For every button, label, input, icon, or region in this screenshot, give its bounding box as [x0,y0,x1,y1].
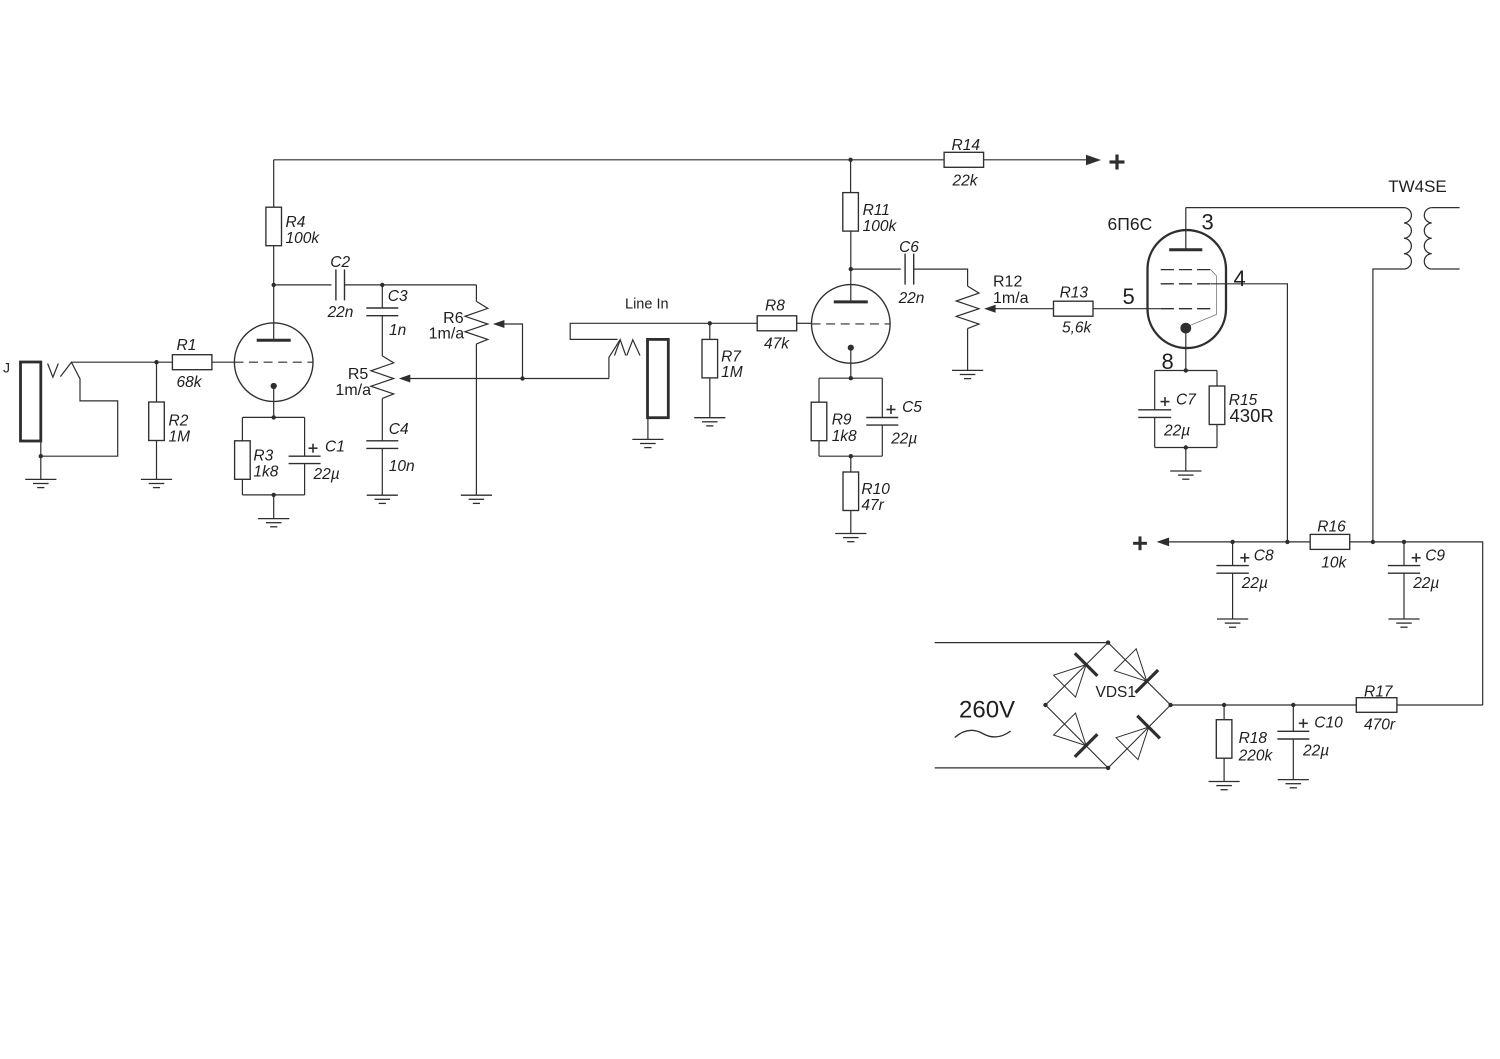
label pin 3 [1202,209,1214,234]
node C8 junction [1230,540,1234,544]
wire R12 to ground [967,329,969,371]
svg-text:430R: 430R [1230,405,1274,426]
wire V1 anode to C2 [274,284,332,286]
wire C3 to R5 [381,316,383,356]
resistor R17 [1356,684,1397,734]
svg-text:R8: R8 [765,298,785,315]
wire C7 bottom lead [1154,417,1156,447]
diode VDS1 lower-right [1116,716,1160,760]
wire C5 bottom lead [881,425,883,456]
resistor R14 [944,137,984,190]
wire C2 to tone network [345,284,477,286]
svg-text:R1: R1 [177,337,197,354]
arrow R5 wiper [399,375,523,383]
ground C8 [1217,619,1248,627]
wire R10 bottom lead [850,511,852,534]
wire V3 cathode network bottom [1155,447,1217,449]
resistor R16 [1310,519,1350,572]
transformer TW4SE primary winding [1404,208,1411,269]
capacitor C8 [1216,547,1274,592]
wire C8 bottom lead [1232,573,1234,619]
wire C3 top lead [381,285,383,308]
node R10 junction [849,454,853,458]
ground R3/C1 [258,519,289,527]
line-in jack body [648,339,669,417]
label TW4SE [1388,177,1447,196]
node R5/R6 wiper junction [520,376,524,380]
diode VDS1 lower-left [1053,713,1097,757]
potentiometer R12 [956,274,1028,329]
svg-text:R3: R3 [253,448,273,465]
capacitor C10 [1277,714,1343,759]
ground line-in jack [632,439,663,447]
wire C1 bottom lead [304,464,306,495]
wire V3 anode lead [1185,208,1187,250]
triode V1 [234,323,313,402]
wire C7 top lead [1154,371,1156,410]
svg-text:22µ: 22µ [313,466,340,483]
AC source sine symbol [955,730,1011,737]
pentode V3 grid g3 [1161,269,1211,271]
node V2 cathode junction [849,376,853,380]
wire secondary top lead [1432,207,1460,209]
svg-text:1m/a: 1m/a [335,382,371,399]
resistor R18 [1216,720,1273,765]
wire C5 top lead [881,378,883,417]
wire R10 top lead [850,456,852,472]
node jack sleeve junction [39,454,43,458]
resistor R1 [172,337,212,391]
svg-text:22µ: 22µ [1302,743,1329,760]
wire R8 to V2 grid [797,322,812,324]
svg-text:R11: R11 [863,202,890,219]
capacitor C2 [327,254,354,321]
resistor R11 [843,193,898,235]
node bridge right [1168,703,1172,707]
svg-text:J: J [3,360,10,376]
wire R15 bottom lead [1216,425,1218,448]
potentiometer R6 [429,301,488,344]
node C10 junction [1291,703,1295,707]
svg-text:22n: 22n [327,304,354,321]
resistor R9 [811,402,857,445]
wire R11 bottom to V2 anode [850,231,852,302]
node C9 junction [1402,540,1406,544]
wire input signal [71,361,172,363]
wire V3 cathode network top [1155,370,1217,372]
node V2 anode / C6 junction [849,267,853,271]
ground R6 [461,495,492,503]
triode V2 [812,285,891,364]
node top-rail / R11 junction [848,158,852,162]
svg-text:C7: C7 [1176,392,1197,409]
svg-text:470r: 470r [1364,717,1396,734]
svg-text:1M: 1M [169,429,191,446]
capacitor C7 [1138,392,1197,440]
wire R7 bottom lead [709,378,711,418]
resistor R2 [149,402,190,446]
wire R9 bottom lead [818,441,820,457]
wire B+ row (right) [1350,542,1483,705]
pentode V3 grid g1 [1161,308,1211,310]
node C3/R6 junction [380,283,384,287]
svg-text:R4: R4 [286,214,306,231]
wire R13 to V3 grid [1093,308,1161,310]
ground C9 [1388,619,1419,627]
label 260V [959,697,1015,724]
arrow R6 wiper [493,320,523,379]
pentode V3 grid g2 [1161,283,1211,285]
transformer TW4SE secondary winding [1424,208,1431,269]
wire V3 cathode lead [1185,333,1187,371]
ground R18 [1209,782,1240,790]
wire R3 top lead [241,417,243,440]
svg-text:1m/a: 1m/a [993,290,1029,307]
wire V2 cathode network top [819,377,882,379]
wire V2 anode to C6 [851,268,901,270]
svg-text:R16: R16 [1317,519,1346,536]
node screen supply junction [1285,540,1289,544]
wire C9 bottom lead [1403,573,1405,619]
line-in jack contact B [627,340,640,356]
wire +B top rail (left segment) [274,159,945,161]
wire R3 bottom lead [241,479,243,495]
capacitor C1 [289,439,345,483]
wire cathode network bottom [242,494,304,496]
svg-text:47k: 47k [764,336,790,353]
svg-text:C4: C4 [389,421,409,438]
node bridge bottom [1106,766,1110,770]
svg-text:100k: 100k [863,218,898,235]
svg-text:VDS1: VDS1 [1096,684,1137,701]
wire R1 to V1 grid [212,361,234,363]
wire C8 top lead [1232,542,1234,566]
svg-text:R18: R18 [1239,730,1268,747]
svg-text:10n: 10n [389,458,415,475]
node R18 junction [1222,703,1226,707]
ground R2 [141,479,172,487]
svg-text:C10: C10 [1314,714,1343,731]
svg-text:C8: C8 [1254,547,1274,564]
capacitor C5 [866,399,922,448]
node cathode network to ground [272,493,276,497]
bridge VDS1 frame [1046,643,1171,768]
svg-text:1n: 1n [389,322,406,339]
svg-text:R17: R17 [1364,684,1394,701]
ground jack J [25,479,56,487]
wire C9 top lead [1403,542,1405,566]
wire to ground [273,495,275,519]
wire top rail down to R4 [273,160,275,207]
svg-text:100k: 100k [286,230,321,247]
svg-text:5,6k: 5,6k [1062,319,1093,336]
node V3 cathode junction [1184,368,1188,372]
wire R7 top lead [709,323,711,339]
wire line-in top [570,323,757,339]
svg-text:1k8: 1k8 [253,463,278,480]
resistor R13 [1054,285,1094,337]
svg-text:220k: 220k [1238,747,1274,764]
arrow B+ feed [1157,538,1170,547]
pentode V3 g3-cathode internal tie [1190,270,1217,326]
pentode V3 envelope [1148,230,1227,348]
resistor R7 [702,339,743,381]
wire C1 top lead [304,417,306,456]
wire rectifier output [1171,704,1357,706]
wire R2 bottom lead [156,441,158,480]
arrow R12 wiper [984,305,1054,313]
node bridge top [1106,640,1110,644]
svg-text:10k: 10k [1321,554,1347,571]
wire V3 anode to transformer [1186,207,1404,209]
label VDS1 [1096,684,1137,701]
diode VDS1 upper-right [1114,648,1158,692]
svg-text:22µ: 22µ [1412,575,1439,592]
svg-text:R14: R14 [952,137,981,154]
wire line-in sleeve to ground [647,418,649,440]
resistor R4 [266,207,320,247]
capacitor C4 [366,421,414,475]
svg-text:R2: R2 [169,413,189,430]
svg-text:C5: C5 [902,399,922,416]
label J [3,360,10,376]
svg-text:TW4SE: TW4SE [1388,177,1447,196]
jack J contact [48,364,59,378]
input jack J body [21,362,41,441]
jack J tip contact and switch arm [41,362,118,456]
node R1/R2 junction [154,360,158,364]
capacitor C9 [1388,547,1446,592]
svg-text:R5: R5 [348,366,369,383]
ground R12 [952,370,983,378]
svg-text:C3: C3 [388,288,408,305]
pentode V3 anode [1169,248,1202,251]
wire R2 top lead [156,362,158,402]
wire secondary bottom lead [1432,268,1460,270]
svg-text:C6: C6 [899,239,919,256]
wire R15 top lead [1216,371,1218,387]
plus sign +B top [1110,155,1125,170]
plus sign B+ feed [1133,536,1147,550]
node V1 cathode junction [272,415,276,419]
wire C10 bottom lead [1292,739,1294,780]
wire R18 top lead [1223,705,1225,720]
wire top rail down to R11 [850,160,852,193]
line-in jack contact A [615,340,626,356]
wire C6 to R12 [914,269,968,286]
svg-text:C1: C1 [325,439,345,456]
label pin 4 [1234,266,1246,291]
wire V2 cathode network bottom [819,455,882,457]
wire jack J sleeve to ground [40,441,42,479]
svg-text:22µ: 22µ [890,431,917,448]
label 6П6С [1108,214,1153,234]
resistor R3 [235,441,279,481]
svg-text:R9: R9 [832,412,852,429]
svg-text:22µ: 22µ [1241,575,1268,592]
svg-text:1m/a: 1m/a [429,325,465,342]
pentode V3 cathode [1180,323,1191,334]
wire R9 top lead [818,378,820,402]
svg-text:260V: 260V [959,697,1015,724]
svg-text:1k8: 1k8 [832,428,857,445]
potentiometer R5 [335,356,393,399]
svg-text:R7: R7 [721,348,742,365]
ground R7 [694,418,725,426]
wire R17 to B+ riser [1397,704,1483,706]
wire B+ row (left) [1169,541,1311,543]
wire C4 to ground [381,448,383,495]
label pin 5 [1123,284,1135,309]
resistor R8 [757,298,797,353]
wire R6 to ground [475,344,477,495]
wire V2 cathode lead [850,348,852,379]
svg-text:22µ: 22µ [1163,423,1190,440]
capacitor C6 [898,239,925,307]
svg-text:68k: 68k [177,374,203,391]
line-in jack tip contact and switch arm [609,340,620,379]
svg-text:Line In: Line In [625,297,669,313]
label pin 8 [1162,349,1174,374]
wire R4 bottom to V1 anode [273,246,275,341]
svg-text:1M: 1M [721,364,743,381]
svg-text:R10: R10 [861,481,890,498]
wire C10 top lead [1292,705,1294,731]
resistor R10 [843,472,890,514]
wire AC line bottom [935,767,1108,769]
svg-text:4: 4 [1234,266,1246,291]
wire feedback top to R6 [475,285,477,302]
wire V3 screen to supply [1211,284,1288,542]
node V1 anode / C2 junction [272,283,276,287]
ground C7/R15 [1170,471,1201,479]
ground R10 [835,534,866,542]
svg-text:3: 3 [1202,209,1214,234]
node cathode network ground junction [1184,445,1188,449]
svg-text:5: 5 [1123,284,1135,309]
wire V1 cathode lead [273,386,275,417]
svg-text:C9: C9 [1425,547,1445,564]
wire R18 bottom lead [1223,758,1225,781]
svg-text:6Π6С: 6Π6С [1108,214,1153,234]
node transformer primary junction [1371,540,1375,544]
svg-text:47r: 47r [861,497,884,514]
wire transformer primary return [1373,269,1404,542]
svg-text:22n: 22n [898,290,925,307]
wire R5 to C4 [381,398,383,440]
wire cathode network top [242,416,304,418]
ground C4 [367,495,398,503]
node bridge left [1043,703,1047,707]
wire +B top rail (right segment) [984,159,1087,161]
capacitor C3 [366,288,408,339]
wire to ground [1185,448,1187,472]
svg-text:R13: R13 [1060,285,1089,302]
svg-text:C2: C2 [330,254,350,271]
node R7 junction [708,321,712,325]
wire AC line top [935,642,1108,644]
resistor R15 [1209,386,1274,426]
arrow to +B supply [1086,155,1101,165]
diode VDS1 upper-left [1053,653,1097,697]
svg-text:R12: R12 [993,274,1022,291]
svg-text:22k: 22k [952,173,979,190]
label Line In [625,297,669,313]
ground C10 [1278,780,1309,788]
wire wiper junction to line-in switch [523,378,609,380]
